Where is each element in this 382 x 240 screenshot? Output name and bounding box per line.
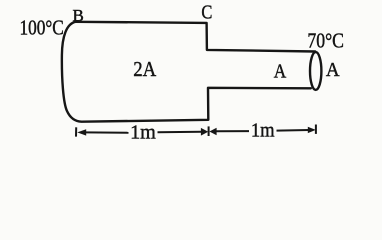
dimension line 1m left segment a (85, 131, 129, 133)
svg-text:70°C: 70°C (307, 29, 344, 53)
rod section 2A outline (top contour with step at C) (76, 22, 316, 52)
dimension line 1m right segment b (277, 129, 310, 132)
rod section 2A outline (left curved end, bottom contour, step to section A) (62, 22, 311, 122)
dimension line 1m left segment b (158, 131, 203, 134)
dimension left arrowhead (77, 129, 86, 135)
right end cap ellipse of section A (310, 52, 321, 90)
svg-text:C: C (201, 3, 212, 24)
svg-text:1m: 1m (251, 120, 275, 142)
svg-text:B: B (73, 6, 84, 25)
svg-text:2A: 2A (133, 57, 157, 81)
dimension line 1m right segment a (216, 130, 250, 132)
dimension right arrowhead (308, 127, 316, 133)
dimension right tick (315, 125, 317, 134)
dimension middle tick (208, 126, 210, 136)
svg-text:1m: 1m (130, 121, 156, 143)
dimension middle right-pointing arrowhead (201, 128, 208, 136)
svg-text:A: A (326, 59, 340, 81)
svg-text:100°C: 100°C (20, 16, 64, 40)
dimension left tick (75, 127, 77, 136)
svg-text:A: A (274, 60, 287, 82)
dimension middle left-pointing arrowhead (209, 128, 216, 136)
